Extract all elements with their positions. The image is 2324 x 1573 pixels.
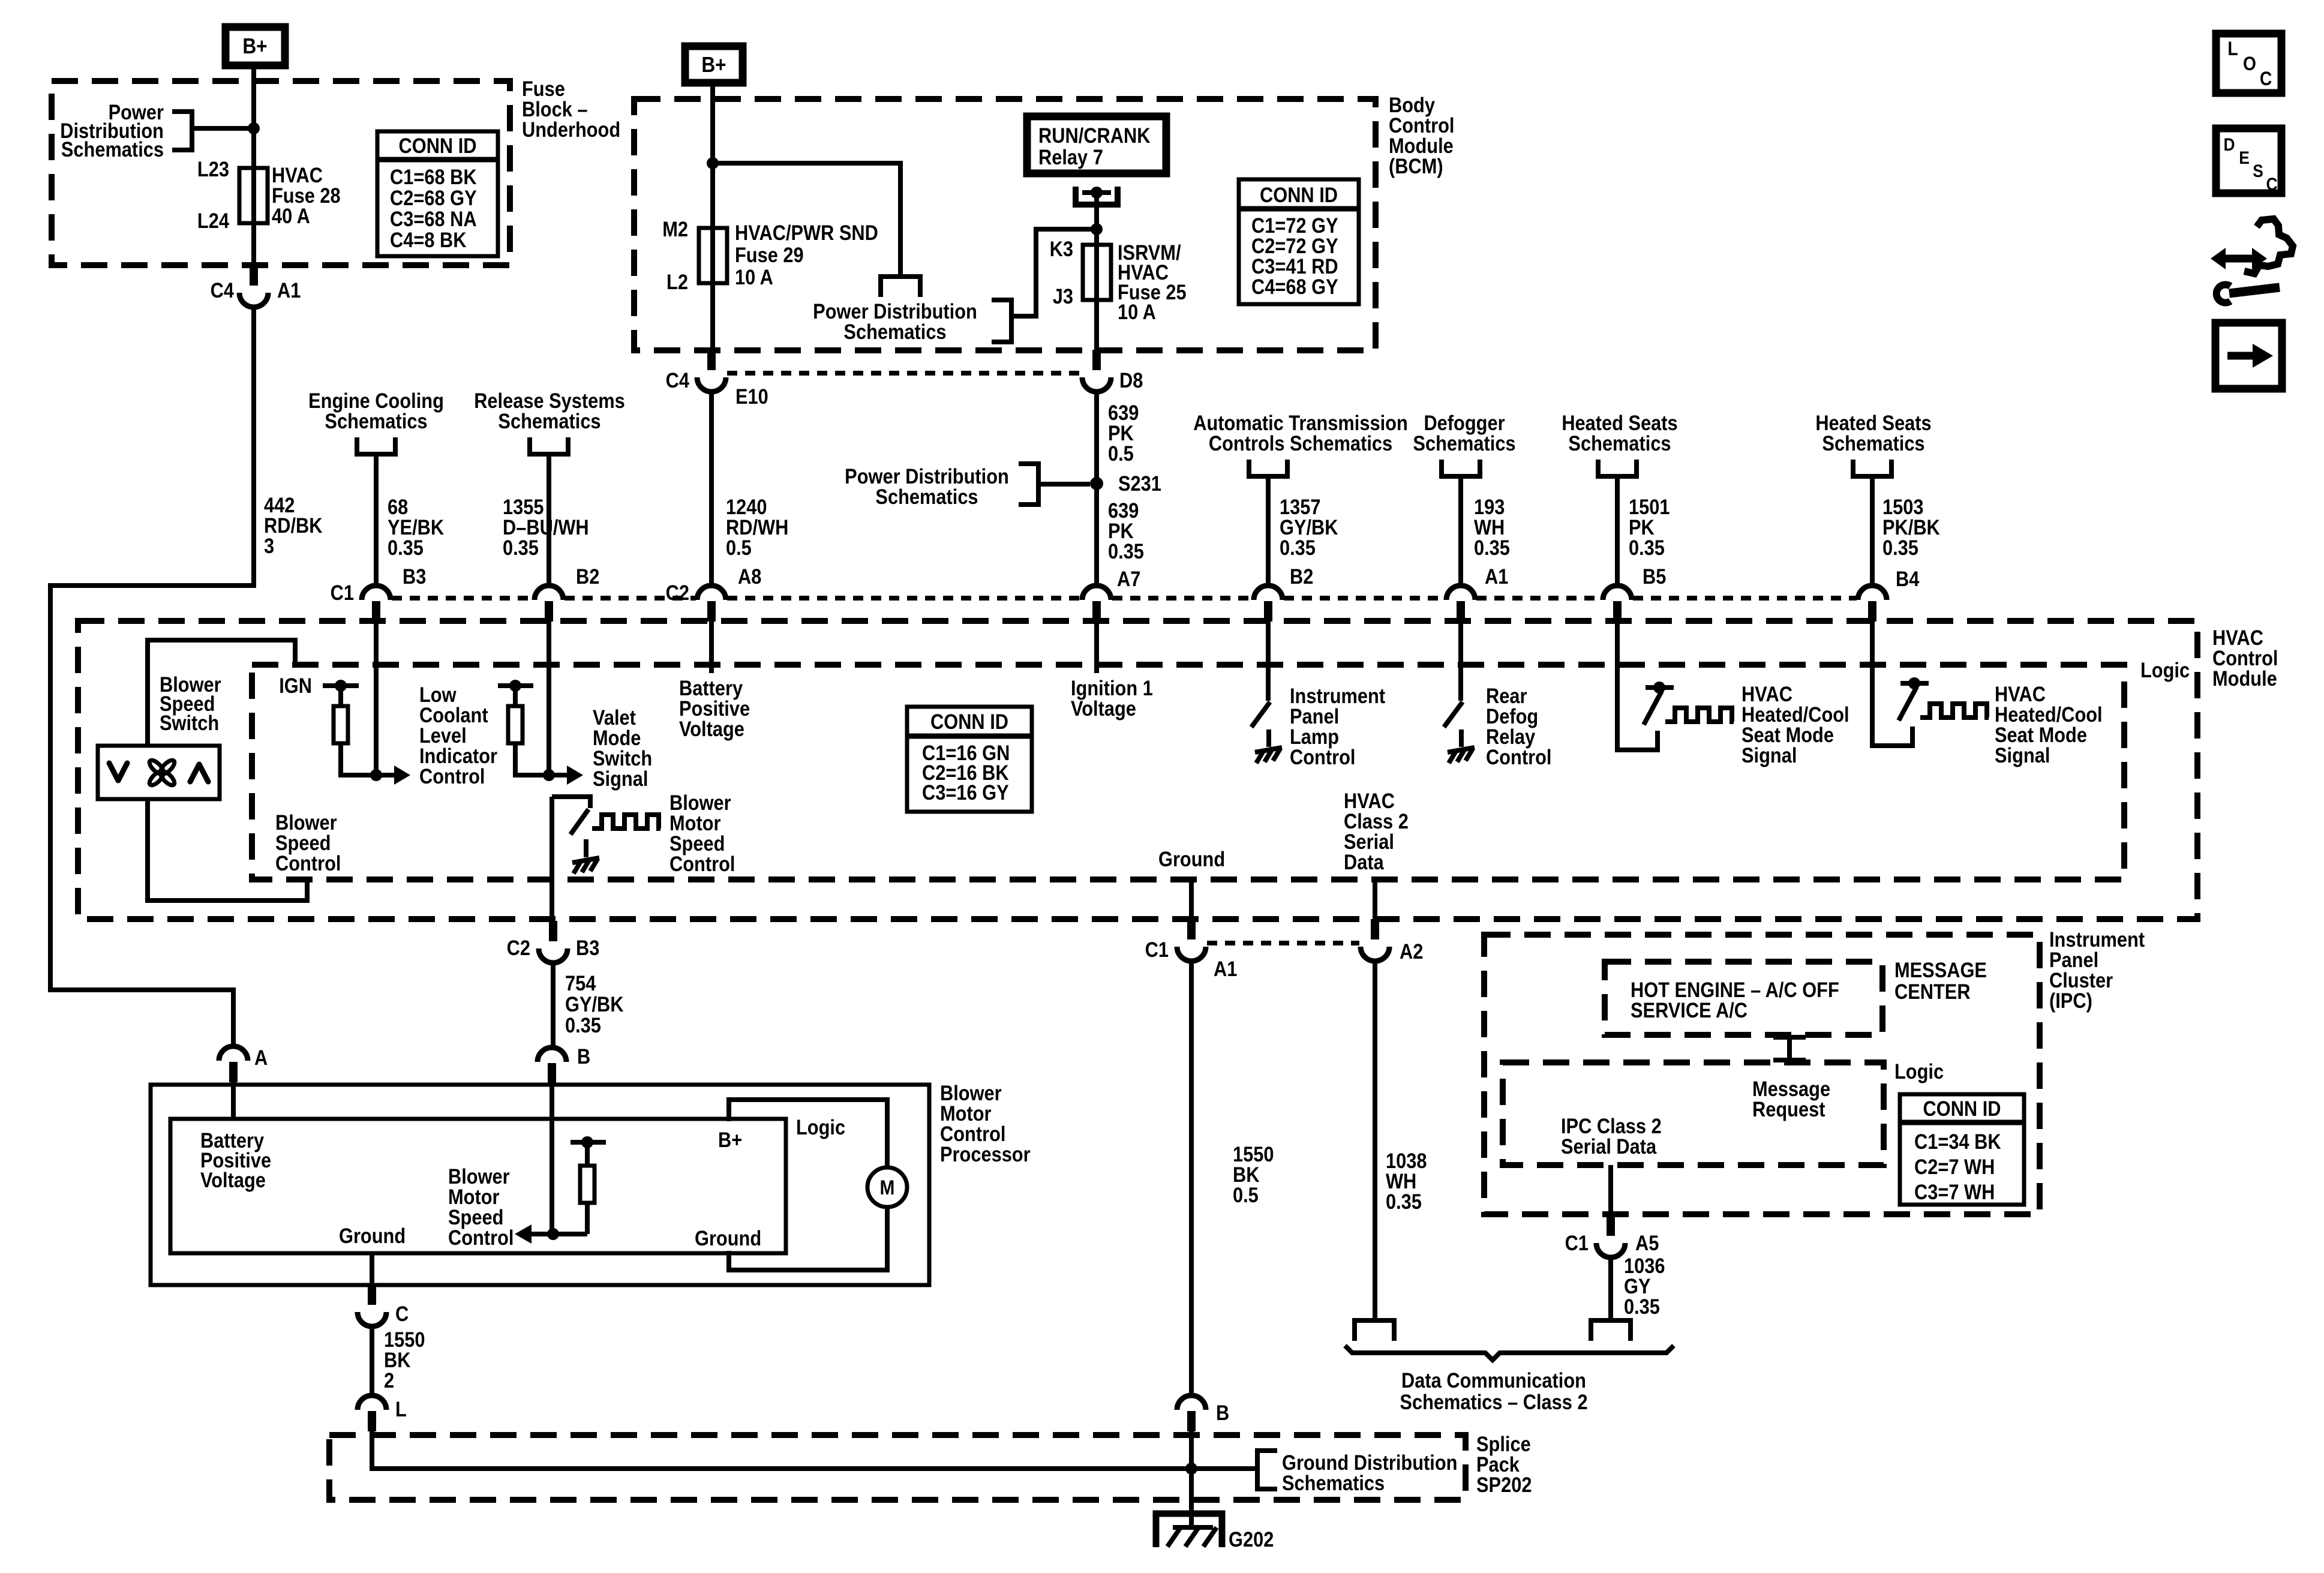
dotted connector row B: [727, 371, 1081, 376]
arrow blower speed control input: [530, 1232, 587, 1236]
svg-text:Processor: Processor: [940, 1142, 1031, 1166]
svg-text:Schematics: Schematics: [325, 409, 427, 433]
svg-text:Schematics: Schematics: [1413, 431, 1515, 455]
svg-text:0.5: 0.5: [1108, 442, 1134, 465]
svg-text:A1: A1: [1214, 957, 1237, 980]
power symbol B+ (middle): [685, 46, 743, 83]
motor M: [867, 1167, 907, 1207]
node junction on B+ feed: [248, 122, 260, 134]
dotted link C1/A1 to A2: [1207, 941, 1359, 945]
svg-text:L24: L24: [197, 209, 230, 232]
svg-text:(IPC): (IPC): [2049, 989, 2092, 1012]
resistor (low coolant pull-up): [334, 706, 348, 743]
svg-text:Signal: Signal: [1995, 743, 2050, 767]
svg-text:CONN ID: CONN ID: [930, 710, 1008, 733]
CONN ID table (fuse block): [377, 131, 498, 256]
svg-text:0.35: 0.35: [1474, 536, 1510, 559]
pwm switch: HVAC heated/cool seat mode (right): [1872, 622, 1912, 746]
connector A7: [1082, 586, 1111, 600]
connector C4/A1: [250, 265, 258, 286]
wire 1550 BK 2: [370, 1326, 374, 1395]
svg-text:L2: L2: [666, 270, 688, 293]
node junction at fuse 25 feed: [1091, 223, 1103, 235]
svg-text:Underhood: Underhood: [522, 118, 620, 141]
svg-text:A8: A8: [738, 565, 761, 588]
node low coolant junction: [370, 769, 382, 781]
brace data communication: [1345, 1346, 1674, 1360]
label: Ignition 1 Voltage: [1094, 622, 1099, 673]
svg-text:0.5: 0.5: [726, 536, 752, 559]
connector B2 (instrument panel): [1254, 586, 1283, 600]
svg-text:S: S: [2253, 160, 2263, 181]
resistor (speed control pull-up): [580, 1166, 594, 1203]
wrench: [2229, 287, 2280, 293]
svg-text:B2: B2: [1290, 565, 1313, 588]
svg-text:Schematics – Class 2: Schematics – Class 2: [1400, 1390, 1587, 1413]
wire relay to fuse 25: [1094, 193, 1099, 350]
wire B+ down to fuse 29: [710, 83, 715, 350]
svg-text:B: B: [1216, 1401, 1229, 1424]
svg-text:C2: C2: [666, 581, 689, 604]
switch: rear defog relay control: [1458, 622, 1463, 701]
pwm switch: HVAC heated/cool seat mode (left): [1617, 622, 1658, 750]
svg-text:Serial Data: Serial Data: [1561, 1134, 1657, 1158]
terminal cap A5 data comm: [1591, 1320, 1631, 1341]
svg-text:0.35: 0.35: [503, 536, 539, 559]
splice S231: [1090, 477, 1103, 490]
svg-text:HVAC/PWR SND: HVAC/PWR SND: [735, 221, 878, 244]
bracket ground distribution: [1257, 1451, 1277, 1489]
wire L to ground distribution: [372, 1431, 1257, 1469]
CONN ID table (HVAC): [907, 707, 1032, 812]
svg-text:B3: B3: [403, 565, 426, 588]
fuse F28 HVAC 40A: [239, 168, 268, 223]
wire serial data out of module: [1373, 879, 1377, 922]
svg-text:Schematics: Schematics: [1822, 431, 1924, 455]
icon LOC: [2216, 34, 2281, 93]
svg-text:CENTER: CENTER: [1894, 980, 1971, 1003]
connector A: [219, 1046, 248, 1061]
svg-text:C1: C1: [1565, 1231, 1589, 1254]
svg-text:CONN ID: CONN ID: [1260, 183, 1338, 206]
svg-text:SP202: SP202: [1476, 1473, 1532, 1496]
svg-text:Ground: Ground: [1158, 847, 1225, 870]
svg-text:E10: E10: [735, 385, 768, 408]
fuse F29 HVAC/PWR SND: [699, 228, 727, 283]
svg-text:B2: B2: [576, 565, 599, 588]
wire blower switch top to logic box: [148, 640, 295, 746]
svg-text:C1=34 BK: C1=34 BK: [1914, 1130, 2001, 1153]
icon fan: [148, 758, 177, 788]
pwm switch: blower motor speed control: [552, 797, 590, 808]
wire branch to power distribution ref: [713, 163, 900, 277]
splice pack SP202 dashed box: [329, 1435, 1466, 1500]
switch: instrument panel lamp control: [1266, 622, 1271, 701]
valet pull-up bar: [498, 683, 533, 688]
svg-text:C3=68 NA: C3=68 NA: [390, 207, 477, 230]
svg-text:M2: M2: [662, 217, 688, 241]
svg-text:A1: A1: [1485, 565, 1508, 588]
connector A2: [1371, 919, 1379, 939]
svg-text:D8: D8: [1119, 368, 1143, 392]
svg-text:C: C: [395, 1302, 409, 1325]
connector D8: [1092, 350, 1101, 370]
svg-text:RUN/CRANK: RUN/CRANK: [1038, 124, 1151, 147]
connector C1/A5: [1607, 1215, 1615, 1236]
svg-text:Schematics: Schematics: [1568, 431, 1671, 455]
svg-text:Switch: Switch: [160, 711, 219, 734]
blower speed switch box: [98, 746, 220, 799]
svg-text:Schematics: Schematics: [843, 320, 946, 343]
bracket from power distribution text to K3 feed: [992, 300, 1011, 342]
svg-text:O: O: [2243, 53, 2256, 74]
arrow low coolant signal: [376, 773, 395, 778]
svg-text:G202: G202: [1229, 1527, 1274, 1551]
svg-text:C1: C1: [331, 581, 354, 604]
node junction to power distribution branch: [707, 157, 719, 169]
dotted connector row C: [392, 596, 533, 601]
svg-text:Ground: Ground: [339, 1224, 406, 1247]
connector L: [358, 1395, 386, 1410]
logic loop to motor: [729, 1100, 887, 1167]
svg-text:Voltage: Voltage: [679, 717, 744, 740]
wire 1240 RD/WH to C2/A8: [709, 392, 714, 586]
connector B (splice): [1177, 1395, 1206, 1410]
svg-text:B3: B3: [576, 936, 599, 959]
wire blower speed control to C2/B3: [550, 797, 554, 924]
svg-text:Schematics: Schematics: [498, 409, 600, 433]
svg-text:Schematics: Schematics: [61, 137, 164, 161]
svg-text:0.5: 0.5: [1233, 1183, 1259, 1206]
fuse block underhood dashed box (left): [52, 81, 510, 265]
node valet junction: [543, 769, 555, 781]
svg-text:2: 2: [384, 1368, 394, 1392]
wire B2 into module: [547, 622, 551, 775]
terminal cap A2 data comm: [1355, 1320, 1394, 1341]
svg-text:Control: Control: [669, 852, 735, 875]
svg-text:754: 754: [565, 971, 596, 995]
svg-text:C: C: [2266, 173, 2277, 194]
svg-text:Schematics: Schematics: [875, 485, 978, 508]
svg-text:0.35: 0.35: [1108, 539, 1144, 563]
svg-text:0.35: 0.35: [565, 1013, 601, 1037]
icon vehicle info (car + arrows + wrench): [2244, 219, 2293, 274]
connector C2/B3 (blower): [549, 921, 557, 941]
label: Battery Positive Voltage (HVAC): [709, 622, 714, 673]
svg-text:C3=7 WH: C3=7 WH: [1914, 1180, 1995, 1203]
svg-text:C: C: [2260, 68, 2272, 89]
wire 442 RD/BK down-left to blower processor: [50, 307, 254, 1046]
svg-text:C4=8 BK: C4=8 BK: [390, 228, 467, 251]
svg-text:40 A: 40 A: [272, 204, 310, 227]
svg-text:0.35: 0.35: [1280, 536, 1316, 559]
svg-text:J3: J3: [1053, 284, 1073, 308]
svg-text:Data Communication: Data Communication: [1401, 1368, 1586, 1392]
wire 1550 BK 0.5 down: [1189, 961, 1194, 1395]
svg-text:C4=68 GY: C4=68 GY: [1251, 275, 1338, 298]
svg-text:B: B: [577, 1044, 590, 1068]
svg-text:CONN ID: CONN ID: [1923, 1097, 2001, 1120]
icon DESC: [2216, 128, 2281, 193]
svg-text:B+: B+: [242, 34, 267, 58]
svg-text:C2: C2: [507, 936, 530, 959]
pull-up bar B+: [571, 1140, 606, 1145]
svg-text:Schematics: Schematics: [1282, 1471, 1385, 1494]
power symbol B+ (left): [226, 27, 285, 65]
connector C: [368, 1284, 376, 1305]
svg-text:B5: B5: [1643, 565, 1666, 588]
IPC logic dashed box: [1503, 1062, 1884, 1165]
message center dashed box: [1605, 962, 1882, 1035]
icon next-page arrow: [2215, 323, 2282, 389]
connector B5: [1603, 586, 1632, 600]
svg-text:Control: Control: [1486, 745, 1551, 769]
svg-text:Logic: Logic: [796, 1115, 845, 1139]
wire C1/B3 into module: [374, 622, 379, 775]
message request link: [1773, 1035, 1806, 1062]
bracket to Power Distribution Schematics: [172, 112, 192, 150]
svg-text:B4: B4: [1896, 567, 1920, 590]
bracket power distribution to S231: [1019, 464, 1038, 505]
icon chevron up: [190, 764, 208, 782]
svg-text:MESSAGE: MESSAGE: [1894, 958, 1987, 981]
svg-text:L: L: [395, 1397, 407, 1421]
svg-text:C1=68 BK: C1=68 BK: [390, 165, 477, 188]
connector C1/B3: [362, 586, 391, 600]
fuse block underhood dashed box (middle/BCM): [634, 99, 1376, 350]
connector C1/A1 (HVAC ground): [1187, 919, 1196, 939]
svg-text:0.35: 0.35: [1629, 536, 1665, 559]
wire 639 PK to S231: [1094, 392, 1099, 586]
svg-text:0.35: 0.35: [388, 536, 424, 559]
svg-text:0.35: 0.35: [1386, 1190, 1422, 1213]
icon chevron down: [109, 763, 127, 781]
node splice junction: [1185, 1463, 1197, 1475]
svg-text:Voltage: Voltage: [200, 1168, 266, 1191]
svg-text:Control: Control: [419, 764, 485, 788]
blower motor control processor box: [151, 1085, 929, 1285]
svg-text:C2=68 GY: C2=68 GY: [390, 186, 477, 209]
svg-text:(BCM): (BCM): [1389, 154, 1443, 178]
svg-text:A7: A7: [1117, 567, 1140, 590]
connector B2 (release systems): [535, 586, 563, 600]
svg-text:10 A: 10 A: [735, 265, 773, 289]
wire B splice to G202: [1189, 1431, 1194, 1527]
wire processor ground down: [370, 1253, 374, 1287]
svg-text:Controls Schematics: Controls Schematics: [1209, 431, 1392, 455]
svg-text:C4: C4: [211, 278, 235, 302]
wire bracket up to fuse 25 node: [1011, 229, 1097, 316]
wire ground out of module: [1189, 879, 1194, 924]
svg-text:K3: K3: [1050, 237, 1073, 260]
wire B+ down to fuse 28: [251, 65, 256, 265]
svg-text:C3=16 GY: C3=16 GY: [922, 781, 1009, 804]
svg-text:Request: Request: [1752, 1097, 1825, 1121]
HVAC logic dashed box: [252, 665, 2124, 879]
CONN ID table (IPC): [1900, 1094, 2024, 1205]
wire blower switch bottom to logic box bottom: [148, 799, 307, 900]
svg-text:0.35: 0.35: [1882, 536, 1918, 559]
svg-text:A1: A1: [277, 278, 301, 302]
svg-text:GY/BK: GY/BK: [565, 992, 624, 1016]
connector C2/A8: [697, 586, 726, 600]
instrument panel cluster dashed box: [1484, 935, 2040, 1214]
svg-text:Control: Control: [275, 851, 341, 875]
connector B: [538, 1047, 566, 1062]
arrow valet signal: [549, 773, 568, 778]
svg-text:A2: A2: [1400, 939, 1423, 963]
connector A1 (defogger): [1446, 586, 1475, 600]
CONN ID table (BCM): [1239, 179, 1359, 304]
svg-text:0.35: 0.35: [1624, 1295, 1660, 1318]
svg-text:Control: Control: [448, 1226, 514, 1249]
svg-text:A: A: [254, 1046, 268, 1069]
svg-text:Logic: Logic: [1894, 1059, 1944, 1083]
svg-text:C4: C4: [666, 368, 690, 392]
svg-text:C2=7 WH: C2=7 WH: [1914, 1155, 1995, 1178]
svg-text:Fuse 29: Fuse 29: [735, 243, 804, 266]
svg-text:Voltage: Voltage: [1071, 697, 1136, 720]
svg-text:B+: B+: [718, 1128, 742, 1151]
ground G202: [1156, 1514, 1222, 1547]
wire bracket to B+ feed: [192, 126, 254, 131]
terminal cap power distribution branch: [881, 277, 920, 297]
svg-text:Control: Control: [1290, 745, 1355, 769]
relay output terminal: [1076, 187, 1118, 205]
wire 1038 WH down: [1373, 961, 1377, 1320]
svg-text:3: 3: [264, 534, 274, 557]
svg-text:Signal: Signal: [593, 767, 648, 790]
svg-text:Module: Module: [2212, 667, 2277, 690]
svg-text:IGN: IGN: [279, 674, 312, 697]
svg-text:E: E: [2239, 147, 2250, 167]
svg-text:Logic: Logic: [2140, 658, 2190, 682]
connector B4: [1858, 586, 1887, 600]
connector C4/E10: [707, 350, 716, 370]
wire IPC logic to C1/A5: [1608, 1165, 1613, 1218]
svg-text:A5: A5: [1635, 1231, 1659, 1254]
svg-text:Signal: Signal: [1742, 743, 1797, 767]
svg-text:L23: L23: [197, 157, 229, 181]
svg-text:Ground: Ground: [695, 1226, 761, 1250]
wire 1036 GY: [1608, 1257, 1613, 1320]
svg-text:CONN ID: CONN ID: [399, 134, 477, 157]
svg-text:D: D: [2223, 134, 2235, 154]
svg-text:Data: Data: [1344, 850, 1384, 873]
relay RUN/CRANK Relay 7: [1027, 116, 1166, 173]
svg-text:10 A: 10 A: [1118, 300, 1156, 323]
svg-text:M: M: [880, 1176, 895, 1199]
fuse F25 ISRVM/HVAC: [1083, 245, 1111, 300]
svg-text:S231: S231: [1118, 472, 1161, 495]
svg-text:Relay 7: Relay 7: [1038, 145, 1103, 169]
svg-text:SERVICE A/C: SERVICE A/C: [1631, 998, 1747, 1022]
processor inner box: [170, 1119, 786, 1253]
wire 754 GY/BK: [551, 963, 556, 1047]
resistor (valet pull-up): [508, 706, 523, 743]
svg-text:B+: B+: [701, 53, 726, 77]
svg-text:L: L: [2227, 38, 2238, 59]
svg-text:C1: C1: [1145, 938, 1169, 961]
HVAC Control Module dashed box: [78, 621, 2197, 919]
